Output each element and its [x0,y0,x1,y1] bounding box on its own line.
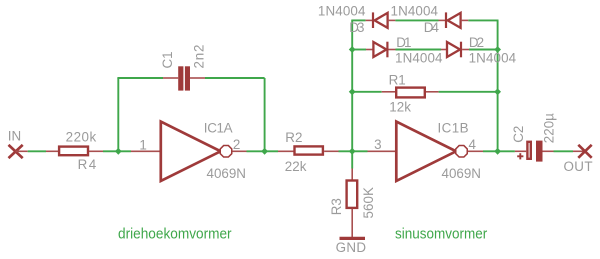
wire R1 left [352,91,382,93]
pin stub C2 left [515,150,526,152]
svg-text:560K: 560K [361,187,376,219]
diode D1 [373,42,388,58]
op-amp inverter IC1B triangle [396,122,456,181]
IC1A bubble [220,146,232,158]
wire row2 left [352,49,366,51]
pin stub D3 cathode [366,19,372,21]
node OUT port symbol [578,145,591,158]
pin stub D1 cathode [389,49,396,51]
svg-text:1N4004: 1N4004 [395,50,443,65]
pin stub C1 right [190,77,205,79]
svg-text:3: 3 [374,137,381,152]
pin stub R4 left [46,150,59,152]
svg-text:R2: R2 [285,130,302,145]
diode D4 [445,12,461,28]
svg-text:C2: C2 [511,126,526,143]
wire node B to R2 [265,150,278,152]
pin stub R3 bottom to GND [351,209,353,237]
svg-text:R1: R1 [389,73,406,88]
svg-text:22k: 22k [285,159,307,174]
pin stub R2 left [278,150,295,152]
svg-text:R4: R4 [78,157,97,172]
resistor R4 [59,147,88,156]
svg-text:1: 1 [139,137,146,152]
pin stub D2 anode [441,49,447,51]
pin stub D3 anode [388,19,396,21]
diode D3 [372,12,388,28]
IC1B bubble [456,146,468,158]
wire R2 to node C [339,150,353,152]
resistor R1 [396,88,425,98]
junction R1 row left [349,88,356,95]
svg-text:driehoekomvormer: driehoekomvormer [118,226,232,243]
wire D3 to D4 [395,19,438,21]
junction node C [349,148,356,155]
pin stub D4 cathode [439,19,446,21]
wire C1 top left [117,77,163,79]
junction row2 left [349,46,356,53]
svg-text:IN: IN [8,129,21,144]
capacitor C2 positive plate [527,142,530,159]
pin stub IC1B output [468,150,483,152]
wire right rail [497,20,499,151]
svg-text:2n2: 2n2 [191,45,206,69]
pin stub D4 anode [461,19,469,21]
wire node C to IC1B [352,150,367,152]
svg-text:D4: D4 [424,20,440,35]
pin stub IC1B input [368,150,396,152]
svg-text:1N4004: 1N4004 [318,3,366,18]
svg-text:R3: R3 [329,198,344,215]
wire C1 top right [205,77,265,79]
pin stub R1 left [382,91,397,93]
wire down to node B [264,78,266,151]
junction node D [494,148,501,155]
svg-text:2: 2 [233,137,240,152]
svg-text:1N4004: 1N4004 [469,50,517,65]
pin stub R1 right [426,91,439,93]
svg-text:OUT: OUT [564,159,593,174]
svg-text:220µ: 220µ [541,113,556,143]
pin stub D1 anode [366,49,373,51]
wire R4 to node A [103,150,118,152]
junction node A [115,148,122,155]
wire top row left [351,19,365,21]
svg-text:IC1A: IC1A [204,120,233,135]
wire C2 to OUT [554,150,574,152]
svg-text:D1: D1 [396,35,411,50]
diode D2 [447,42,462,58]
pin stub C2 right [543,150,554,152]
svg-text:IC1B: IC1B [438,120,469,135]
svg-text:4069N: 4069N [442,166,481,181]
pin stub D2 cathode [462,49,469,51]
wire D1 to D2 [396,49,442,51]
resistor R3 [347,181,358,208]
capacitor C1 plates [178,66,183,90]
resistor R2 [295,146,323,154]
svg-text:D2: D2 [469,35,484,50]
wire left rail up [351,20,353,151]
svg-text:GND: GND [336,240,367,255]
svg-text:1N4004: 1N4004 [391,3,439,18]
pin stub R4 right [89,150,103,152]
wire R1 to right rail [439,91,498,93]
junction node B [261,148,268,155]
svg-text:C1: C1 [160,51,175,68]
svg-text:12k: 12k [389,100,411,115]
pin stub R2 right [324,150,338,152]
junction row2 right [494,46,501,53]
svg-text:220k: 220k [66,129,97,144]
wire node C down to R3 [351,151,353,168]
pin stub IC1A output [232,150,246,152]
junction R1 row right [494,88,501,95]
C2 plus sign [517,153,523,159]
wire node A to IC1A [118,150,131,152]
svg-text:D3: D3 [349,20,364,35]
wire D2 to right rail [469,49,498,51]
pin stub R3 top [351,169,353,181]
pin stub IC1A input [131,150,160,152]
pin stub C1 left [163,77,178,79]
wire node A up to C1 [117,78,119,151]
op-amp inverter IC1A triangle [161,122,221,181]
wire node D to C2 [498,150,515,152]
svg-text:4: 4 [469,137,477,152]
capacitor C2 negative plate [536,141,543,162]
wire to node B [247,150,265,152]
svg-text:sinusomvormer: sinusomvormer [395,226,487,243]
node IN port symbol [9,145,23,158]
wire IN to R4 [16,150,28,152]
wire IC1B out to node D [483,150,498,152]
ground symbol [340,237,366,240]
svg-text:4069N: 4069N [207,166,246,181]
wire D4 to right rail [468,19,498,21]
